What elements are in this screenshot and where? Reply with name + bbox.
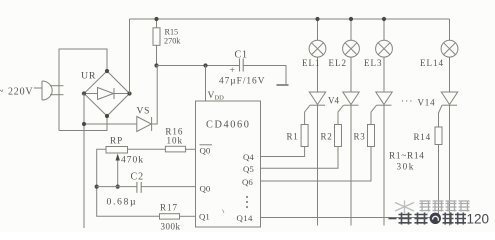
- junction wiper / C2 line: [116, 185, 120, 189]
- watermark text 2 (dark CJK imitation + logo + 120): [389, 213, 428, 225]
- speck mark: [223, 210, 225, 214]
- lamp EL2: [329, 19, 360, 92]
- svg-text:Q0: Q0: [200, 184, 211, 194]
- watermark emblem: [395, 201, 414, 214]
- capacitor C1 47uF/16V: [219, 50, 265, 87]
- plug XP: [34, 81, 64, 100]
- svg-text:Q4: Q4: [243, 152, 254, 162]
- wire: Q4 output to R1: [261, 147, 305, 157]
- wire: RP left down to C2 line and R17: [97, 149, 160, 216]
- svg-text:R14: R14: [414, 132, 431, 142]
- wire: R14 to Q14 line: [438, 145, 440, 218]
- thyristor V4: [328, 92, 359, 226]
- wire: C1 to end bar: [243, 66, 286, 85]
- junction EL2 on rail: [349, 17, 353, 21]
- svg-text:···: ···: [401, 96, 414, 106]
- svg-text:RP: RP: [110, 136, 123, 146]
- svg-text:R2: R2: [321, 132, 333, 142]
- svg-text:CD4060: CD4060: [206, 120, 251, 131]
- wire: bridge DC- down rail: [83, 94, 85, 229]
- lamp EL1: [302, 19, 326, 92]
- svg-text:~: ~: [0, 86, 4, 97]
- wire: top supply rail: [130, 18, 450, 20]
- svg-text:EL3: EL3: [364, 58, 383, 68]
- op IC U1 CD4060: [196, 101, 261, 227]
- ground bar at C1 return: [277, 84, 289, 86]
- thyristor V1: [305, 92, 326, 226]
- node Vdd supply line: [154, 63, 158, 67]
- junction EL3 on rail: [382, 17, 386, 21]
- wire: R16 to Q0bar pin: [186, 148, 196, 150]
- wire: Q14 output line: [261, 217, 439, 219]
- wire: VS anode from DC- rail: [84, 123, 137, 125]
- resistor R14: [414, 127, 443, 145]
- resistor R3: [354, 125, 375, 147]
- wire: plug rail to bridge top loop: [59, 49, 107, 131]
- AC source label ~220V: [0, 86, 33, 98]
- svg-text:300k: 300k: [161, 222, 181, 232]
- svg-text:Q0: Q0: [200, 146, 211, 156]
- wire: VS cathode up to Vdd node: [152, 66, 158, 125]
- wire: Q5 output to R2: [261, 147, 339, 169]
- bridge rectifier UR: [81, 71, 130, 117]
- junction on top rail at R15: [154, 17, 158, 21]
- junction EL1 on rail: [315, 17, 319, 21]
- lamp EL3: [364, 19, 392, 92]
- svg-text:EL14: EL14: [420, 58, 444, 68]
- svg-text:C1: C1: [235, 50, 248, 61]
- svg-text:10k: 10k: [167, 135, 184, 145]
- value label R1~R14 30k: [389, 152, 425, 172]
- wire: Vdd node line: [157, 65, 240, 67]
- thyristor V5: [371, 92, 392, 226]
- wire: C2 line left: [97, 186, 137, 188]
- svg-text:Q14: Q14: [237, 213, 254, 223]
- svg-text:0.68µ: 0.68µ: [107, 197, 138, 208]
- svg-text:270k: 270k: [164, 37, 181, 46]
- svg-text:30k: 30k: [397, 162, 415, 172]
- svg-text:470k: 470k: [121, 156, 144, 166]
- svg-text:R1~R14: R1~R14: [389, 152, 425, 162]
- svg-text:+: +: [230, 66, 235, 76]
- watermark text 1 (gray CJK imitation): [420, 201, 470, 212]
- svg-text:Q6: Q6: [242, 177, 253, 187]
- junction RP-left / C2 line: [95, 185, 99, 189]
- svg-text:EL2: EL2: [329, 58, 348, 68]
- svg-text:Q5: Q5: [243, 164, 254, 174]
- svg-text:220V: 220V: [8, 87, 33, 98]
- resistor R15 270k: [153, 19, 181, 66]
- svg-text:VS: VS: [137, 107, 151, 117]
- watermark logo circle: [430, 213, 441, 224]
- resistor R17 300k: [160, 203, 181, 232]
- node: bridge top corner: [105, 69, 109, 73]
- thyristor V14: [401, 92, 458, 226]
- wire: C2 to Q0 pin: [141, 186, 195, 188]
- svg-text:R3: R3: [354, 132, 366, 142]
- junction: Vdd drop to IC: [203, 63, 207, 67]
- lamp EL14: [420, 19, 458, 92]
- resistor R2: [321, 125, 342, 147]
- svg-text:UR: UR: [81, 71, 96, 82]
- wire: Q6 output to R3: [261, 147, 372, 182]
- node: bridge left corner: [82, 91, 86, 95]
- svg-text:R15: R15: [165, 28, 179, 37]
- zener diode VS: [137, 107, 152, 132]
- svg-text:EL1: EL1: [302, 58, 321, 68]
- node: bridge bottom corner: [105, 114, 109, 118]
- svg-text:V14: V14: [418, 98, 436, 108]
- svg-text:Q1: Q1: [199, 212, 210, 222]
- svg-text:C2: C2: [131, 172, 145, 183]
- capacitor C2 0.68u: [107, 172, 145, 208]
- wire: Vdd into IC: [205, 66, 207, 102]
- wire: bridge DC+ to top rail: [129, 19, 131, 94]
- svg-text:V4: V4: [328, 96, 339, 106]
- svg-text:47µF/16V: 47µF/16V: [219, 77, 265, 87]
- wire: plug rail bottom to bridge bottom corner: [59, 116, 107, 131]
- svg-text:R1: R1: [287, 132, 299, 142]
- wire: RP right to R16: [128, 148, 166, 150]
- svg-text:R17: R17: [160, 203, 178, 213]
- svg-text:120: 120: [467, 211, 490, 226]
- node: bridge right corner: [127, 91, 131, 95]
- resistor R1: [287, 125, 309, 147]
- resistor R16 10k: [165, 127, 185, 152]
- potentiometer RP 470k: [106, 136, 144, 187]
- wire: R17 to Q1 pin: [180, 215, 196, 217]
- junction on DC- rail: [82, 122, 86, 126]
